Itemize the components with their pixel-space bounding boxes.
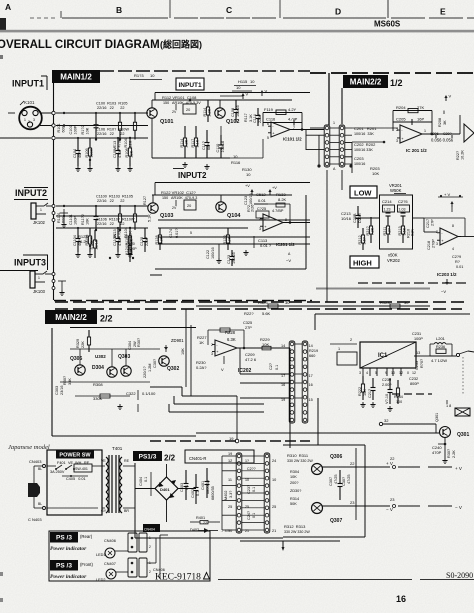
svg-text:+V: +V (245, 184, 250, 188)
resistor R1103 (119, 206, 121, 214)
left margin tick (8, 112, 15, 114)
svg-text:R401: R401 (196, 516, 205, 520)
svg-text:19: 19 (228, 452, 232, 456)
transistor Q103 (148, 203, 158, 213)
svg-text:2: 2 (211, 343, 213, 347)
bottom rail wires (240, 540, 340, 542)
svg-text:32: 32 (384, 418, 389, 423)
svg-text:L201: L201 (436, 336, 446, 341)
svg-text:C122: C122 (206, 250, 210, 259)
svg-text:R101: R101 (57, 123, 61, 132)
capacitor C114 220P (257, 108, 259, 116)
wire IC201 output (422, 133, 460, 135)
svg-text:C233: C233 (415, 361, 419, 370)
block MAIN2/2 2/2 outline (51, 328, 53, 436)
registration mark left (0, 18, 6, 32)
svg-text:C30?: C30? (342, 477, 346, 486)
LED1 (105, 548, 115, 558)
svg-text:Japanese model: Japanese model (8, 444, 50, 451)
svg-text:220P: 220P (145, 237, 149, 246)
stub gnd input3 (58, 280, 66, 282)
svg-text:23: 23 (350, 500, 355, 505)
svg-text:4.2Y: 4.2Y (288, 107, 297, 112)
svg-text:D: D (335, 7, 341, 17)
svg-text:BR: BR (124, 509, 129, 513)
svg-text:C231: C231 (412, 332, 421, 336)
svg-text:0.01: 0.01 (456, 265, 463, 269)
svg-text:3A 250V: 3A 250V (50, 470, 65, 474)
svg-text:R208: R208 (438, 118, 442, 127)
svg-text:47/25: 47/25 (347, 474, 351, 484)
svg-text:16: 16 (396, 594, 406, 604)
svg-text:23: 23 (390, 497, 395, 502)
svg-text:0.1: 0.1 (252, 487, 256, 492)
svg-text:300K: 300K (90, 148, 94, 157)
svg-text:150 AR10K 470-9.3: 150 AR10K 470-9.3 (162, 196, 197, 200)
LED2 (106, 569, 116, 579)
svg-text:2V: 2V (172, 110, 177, 114)
node 32 wire (379, 422, 382, 425)
resistor R21x (370, 217, 372, 226)
PS connector pin wires (242, 455, 264, 457)
svg-text:PS /3: PS /3 (56, 563, 72, 570)
block PS outline (134, 463, 136, 538)
svg-text:30: 30 (228, 529, 232, 533)
connector CN inter-board left strip (324, 125, 330, 167)
svg-text:4: 4 (366, 371, 368, 375)
svg-text:R128: R128 (155, 235, 159, 244)
wire right edge (459, 115, 461, 134)
svg-text:10K: 10K (86, 218, 90, 225)
wire K101 to bus (42, 112, 54, 114)
wire down to pin 19 (236, 396, 238, 441)
svg-text:2: 2 (396, 128, 398, 132)
svg-text:6.3K: 6.3K (227, 337, 236, 342)
gray fuzzy bottom line (316, 288, 430, 290)
svg-text:19: 19 (281, 398, 285, 402)
components under IC1 (362, 376, 364, 384)
svg-text:Q102: Q102 (226, 119, 239, 125)
transistor Q102 (215, 108, 225, 118)
svg-text:(Rear): (Rear) (80, 534, 93, 539)
svg-text:0.1/100: 0.1/100 (142, 391, 156, 396)
svg-text:+ V: + V (444, 192, 450, 197)
svg-text:R1?2: R1?2 (81, 125, 85, 134)
wire to feedback (230, 157, 263, 159)
edge mark (0, 55, 3, 59)
svg-text:C104: C104 (73, 149, 77, 158)
svg-text:16: 16 (281, 383, 285, 387)
svg-text:68P: 68P (207, 143, 211, 150)
block MAIN2/2 1/2 top border (310, 72, 326, 74)
block left border drop (328, 73, 330, 125)
capacitor C1103 (95, 206, 97, 217)
svg-text:W50K: W50K (390, 188, 402, 193)
svg-text:C1104: C1104 (73, 235, 77, 246)
transistor Q307 (312, 503, 323, 514)
svg-text:OVERALL CIRCUIT DIAGRAM: OVERALL CIRCUIT DIAGRAM (0, 39, 160, 51)
svg-text:2?0P: 2?0P (432, 239, 436, 248)
capacitor C110 100/16 (220, 135, 222, 145)
lower right block border (315, 313, 470, 315)
svg-text:C218: C218 (427, 241, 431, 250)
svg-text:9: 9 (385, 371, 387, 375)
svg-text:21: 21 (245, 529, 249, 533)
transistor Q101 (147, 108, 157, 118)
svg-text:5.6K: 5.6K (262, 311, 271, 316)
bus verticals mid (239, 348, 241, 374)
svg-text:470P: 470P (118, 149, 122, 158)
wire op-amp2 output (283, 222, 310, 224)
label INPUT1 boxed (176, 78, 204, 90)
svg-text:S110: S110 (90, 241, 94, 250)
svg-text:R21?: R21? (366, 226, 370, 235)
svg-text:14: 14 (281, 344, 285, 348)
svg-text:2/2: 2/2 (164, 454, 176, 463)
svg-text:0.01: 0.01 (258, 198, 267, 203)
svg-text:ZD30?: ZD30? (290, 489, 301, 493)
svg-text:10.2K: 10.2K (461, 150, 465, 160)
svg-text:KEC-91718: KEC-91718 (155, 573, 201, 583)
svg-text:INPUT3: INPUT3 (14, 258, 46, 268)
svg-text:R?: R? (455, 260, 460, 264)
svg-text:C214: C214 (382, 199, 392, 204)
wire stage rail2 (152, 194, 292, 196)
power rail V+ (242, 94, 244, 99)
wire channel mid rail (56, 125, 148, 127)
svg-text:H115: H115 (238, 79, 248, 84)
svg-text:22/16: 22/16 (95, 240, 99, 250)
resistor R213 5.5K (402, 217, 404, 226)
svg-text:INPUT2: INPUT2 (15, 188, 47, 198)
resistor R114 (207, 100, 209, 107)
svg-text:22: 22 (350, 461, 355, 466)
svg-text:17: 17 (309, 374, 313, 378)
svg-text:14: 14 (309, 344, 313, 348)
jack JK102 (31, 203, 36, 219)
svg-text:C30?: C30? (153, 359, 157, 368)
wire Q301 down (444, 438, 446, 459)
svg-text:−V: −V (441, 289, 446, 294)
svg-text:C2?5: C2?5 (398, 199, 408, 204)
svg-text:+ V: + V (455, 466, 462, 471)
svg-text:C217: C217 (426, 219, 430, 228)
label CN401-R boxed (185, 450, 254, 463)
svg-text:1: 1 (338, 347, 340, 351)
svg-text:100P: 100P (414, 337, 423, 341)
capacitor C403 (185, 470, 187, 484)
svg-text:PS1/3: PS1/3 (139, 453, 157, 460)
svg-text:22: 22 (390, 456, 395, 461)
svg-text:10: 10 (391, 371, 395, 375)
svg-text:R204: R204 (396, 105, 406, 110)
svg-text:2.2K: 2.2K (208, 108, 212, 116)
svg-text:C405 0.01: C405 0.01 (66, 477, 86, 481)
op-amp IC203 1/2 (440, 228, 458, 245)
svg-text:0.1: 0.1 (196, 491, 200, 496)
svg-text:+V: +V (272, 186, 277, 190)
emitter rail (60, 381, 150, 383)
svg-text:JK103: JK103 (33, 289, 46, 294)
wires bridge (135, 488, 155, 490)
registration marks bottom left (0, 572, 3, 576)
svg-text:0.1: 0.1 (275, 365, 279, 370)
bridge rectifier D401 (155, 477, 178, 500)
svg-text:5: 5 (190, 231, 192, 235)
svg-text:C322: C322 (126, 391, 136, 396)
svg-text:2/26: 2/26 (251, 205, 255, 212)
svg-text:+ V: + V (386, 461, 393, 466)
svg-text:8.2K: 8.2K (278, 197, 287, 202)
wire channel mid rail (56, 215, 148, 217)
feedback R119 C116 (263, 112, 302, 114)
svg-text:5: 5 (267, 136, 269, 140)
svg-text:3K: 3K (443, 120, 447, 125)
svg-text:R30?: R30? (63, 376, 67, 385)
svg-text:R?0?: R?0? (420, 359, 424, 368)
svg-text:BL: BL (38, 502, 42, 506)
wire stub (60, 212, 68, 214)
wire tone input (355, 217, 380, 219)
power block outline (47, 450, 102, 515)
svg-text:C114: C114 (253, 114, 257, 123)
svg-text:4: 4 (452, 247, 454, 251)
transistor Q306 (312, 464, 323, 475)
footer divider line (218, 579, 412, 581)
capacitor C123 190/16 (231, 250, 233, 257)
label V+ right (445, 96, 447, 101)
svg-text:C512: C512 (256, 192, 266, 197)
feedback IC203 (424, 217, 465, 219)
svg-text:LED1: LED1 (96, 553, 106, 557)
svg-text:6.2K: 6.2K (80, 239, 89, 244)
svg-text:R117: R117 (244, 113, 248, 122)
svg-text:INPUT2: INPUT2 (178, 171, 207, 180)
svg-text:23/16: 23/16 (60, 385, 64, 395)
resistor R1108 lower (129, 228, 131, 236)
wire Q101 emitter network (151, 118, 153, 158)
svg-text:800P: 800P (410, 382, 419, 386)
PS connector strip left (236, 453, 242, 533)
svg-text:R1101: R1101 (57, 212, 61, 223)
svg-text:Q307: Q307 (330, 518, 342, 524)
svg-text:R127: R127 (143, 196, 147, 205)
resistor R105 (134, 113, 136, 122)
svg-text:IC101 1/2: IC101 1/2 (283, 137, 302, 142)
svg-text:GY: GY (101, 509, 107, 513)
svg-text:R114: R114 (203, 108, 207, 117)
svg-text:C307: C307 (329, 477, 333, 486)
svg-text:2: 2 (149, 545, 151, 549)
svg-text:MAIN2/2: MAIN2/2 (55, 313, 87, 322)
svg-text:3: 3 (33, 118, 35, 122)
svg-text:100/16: 100/16 (221, 141, 225, 153)
trimmer VR102 (184, 200, 196, 210)
svg-text:50K: 50K (290, 502, 297, 506)
svg-text:0.056 0.056: 0.056 0.056 (431, 138, 454, 143)
svg-text:INPUT1: INPUT1 (12, 79, 44, 89)
svg-text:4.7 1/2W: 4.7 1/2W (431, 358, 447, 363)
capacitor C1104 lower (77, 228, 79, 239)
capacitor C10W lower (117, 138, 119, 151)
PS connector left stubs (222, 455, 236, 457)
svg-text:(総回路図): (総回路図) (160, 39, 202, 50)
svg-text:15: 15 (309, 398, 313, 402)
AC plug (28, 483, 40, 497)
svg-text:25: 25 (272, 505, 276, 509)
svg-text:1: 1 (424, 129, 426, 133)
svg-text:F401: F401 (57, 461, 66, 465)
svg-text:LED2: LED2 (96, 578, 106, 582)
block MAIN1/2 top border (100, 70, 114, 72)
svg-text:1/2: 1/2 (390, 78, 403, 88)
svg-text:Q103: Q103 (160, 213, 173, 219)
resistors under Q101/Q102 (184, 126, 186, 138)
svg-text:22K: 22K (130, 150, 134, 157)
svg-text:3: 3 (259, 227, 261, 231)
op-amp IC202 (215, 340, 237, 356)
wire JK103 to bus (45, 273, 54, 275)
svg-text:2: 2 (436, 230, 438, 234)
svg-text:C20?: C20? (443, 132, 452, 136)
svg-text:0.1: 0.1 (252, 513, 256, 518)
svg-text:E: E (440, 7, 446, 17)
wires base rail (70, 348, 160, 350)
svg-text:2: 2 (149, 570, 151, 574)
svg-text:R129: R129 (223, 235, 227, 244)
svg-text:C110W: C110W (113, 233, 117, 246)
svg-text:C232: C232 (409, 377, 418, 381)
svg-text:10K: 10K (86, 127, 90, 134)
svg-text:C401: C401 (201, 481, 205, 490)
svg-text:100/16 33K: 100/16 33K (354, 148, 373, 152)
svg-text:1?: 1? (245, 459, 249, 463)
svg-text:R1?3: R1?3 (134, 73, 144, 78)
block PS/3 outline (49, 531, 210, 581)
svg-text:R304: R304 (290, 470, 299, 474)
wire channel third rail (56, 227, 148, 229)
svg-text:10: 10 (250, 79, 255, 84)
svg-text:V: V (449, 94, 452, 99)
svg-text:330 2W 330 2W: 330 2W 330 2W (284, 530, 310, 534)
svg-text:C23?: C23? (247, 485, 251, 494)
left edge tick mid (150, 274, 162, 276)
capacitor C103 (95, 113, 97, 125)
svg-text:1: 1 (40, 208, 42, 212)
svg-text:F119: F119 (264, 107, 274, 112)
svg-text:R312 R313: R312 R313 (284, 524, 306, 529)
svg-text:0.2A?: 0.2A? (196, 365, 207, 370)
svg-text:C202 R202: C202 R202 (354, 142, 376, 147)
ruler line (30, 17, 58, 19)
svg-text:20: 20 (186, 108, 190, 112)
svg-text:Q301: Q301 (457, 432, 469, 438)
svg-text:RE: RE (124, 459, 130, 463)
svg-text:Power indicator: Power indicator (50, 546, 87, 552)
svg-text:C120: C120 (140, 237, 144, 246)
IC1 power amplifier (360, 342, 416, 368)
svg-text:E13: E13 (113, 141, 117, 148)
svg-text:10K: 10K (363, 389, 367, 396)
svg-text:Q305: Q305 (70, 356, 82, 362)
svg-text:5: 5 (375, 371, 377, 375)
svg-text:10K: 10K (290, 475, 297, 479)
svg-text:C404: C404 (139, 477, 143, 486)
svg-text:D20R: D20R (358, 213, 362, 223)
svg-text:R211: R211 (383, 227, 387, 236)
svg-text:C106 R10? R10W: C106 R10? R10W (96, 128, 129, 132)
svg-text:R314: R314 (290, 497, 299, 501)
jack JK103 (30, 271, 35, 288)
svg-text:470P: 470P (432, 450, 442, 455)
svg-text:POWER SW: POWER SW (59, 452, 91, 458)
vertical buses to PS (289, 348, 291, 448)
svg-text:C120: C120 (126, 242, 135, 246)
svg-text:C1100 R1103 R1105: C1100 R1103 R1105 (96, 195, 133, 199)
block MAIN1/2 label (52, 70, 100, 83)
connector CN inter-board right strip (339, 125, 345, 167)
svg-text:10: 10 (236, 85, 241, 90)
svg-text:47.2 6: 47.2 6 (245, 357, 257, 362)
svg-text:S0-2090: S0-2090 (446, 571, 473, 580)
svg-text:220P: 220P (258, 114, 262, 123)
svg-text:C11?: C11? (202, 141, 206, 150)
wire +V out (323, 466, 391, 468)
long bus wires channel2 (158, 219, 310, 221)
resistor R211 7.3K (387, 217, 389, 226)
svg-text:7.3K: 7.3K (371, 227, 375, 235)
svg-text:Q301: Q301 (435, 413, 439, 422)
transformer windings (106, 457, 108, 464)
svg-text:330K: 330K (93, 396, 103, 401)
svg-text:2/2: 2/2 (100, 314, 113, 324)
svg-text:V: V (265, 89, 268, 94)
svg-text:100P: 100P (74, 125, 78, 134)
svg-text:91K: 91K (411, 229, 415, 236)
svg-text:R213: R213 (398, 226, 402, 235)
section divider dashed upper (55, 301, 68, 303)
svg-text:1K: 1K (199, 340, 204, 345)
svg-text:ZD901: ZD901 (171, 338, 184, 343)
svg-text:C174: C174 (169, 229, 173, 238)
svg-text:R104: R104 (124, 138, 128, 147)
inner block border input2 stage (155, 182, 310, 184)
section divider dashed lower (55, 308, 68, 310)
svg-text:660: 660 (309, 354, 315, 358)
svg-text:Q101: Q101 (160, 119, 173, 125)
svg-text:600: 600 (62, 126, 66, 132)
svg-text:C123: C123 (227, 255, 231, 264)
svg-text:C2?9: C2?9 (452, 255, 461, 259)
svg-text:1.2M: 1.2M (148, 364, 152, 372)
svg-text:− V: − V (455, 505, 462, 510)
connector pin wires (330, 127, 339, 129)
svg-text:R310 R311: R310 R311 (287, 453, 309, 458)
svg-text:Q306: Q306 (330, 454, 342, 460)
svg-text:12: 12 (412, 371, 416, 375)
speaker output wire (430, 355, 456, 357)
svg-text:1: 1 (333, 121, 335, 125)
svg-text:− V: − V (386, 507, 393, 512)
svg-text:330 2W 330 2W: 330 2W 330 2W (287, 459, 313, 463)
resistor R108 lower (129, 138, 131, 148)
svg-text:10: 10 (150, 73, 155, 78)
svg-text:Q303: Q303 (118, 354, 130, 360)
svg-text:C403: C403 (180, 483, 184, 492)
wire vertical 356 (355, 448, 357, 520)
svg-text:R106: R106 (85, 148, 89, 157)
svg-text:10K: 10K (181, 348, 185, 355)
